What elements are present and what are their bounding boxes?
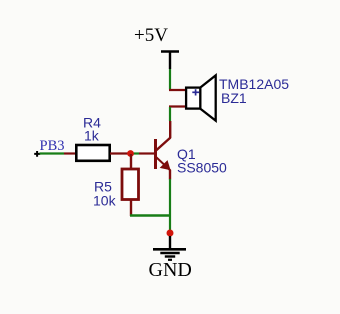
wire R5 bottom pin [130, 199, 132, 216]
wire R4 to node A [110, 152, 130, 154]
port label PB3 [40, 138, 65, 154]
resistor value 1k [84, 128, 100, 144]
resistor designator R5 [94, 179, 112, 195]
node A junction dot [127, 150, 134, 157]
wire PB3 to R4 [40, 152, 77, 154]
svg-text:BZ1: BZ1 [221, 90, 247, 106]
wire node A to R5 [130, 154, 132, 169]
wire R5 to emitter [130, 214, 170, 216]
svg-text:SS8050: SS8050 [177, 160, 227, 176]
resistor R4 body [76, 145, 109, 161]
wire buzzer to collector [169, 107, 171, 121]
ground label GND [149, 259, 192, 281]
wire emitter to ground [169, 179, 171, 231]
ground symbol [153, 249, 186, 259]
transistor value SS8050 [177, 160, 227, 176]
transistor designator Q1 [177, 146, 196, 162]
transistor Q1 emitter pin with arrow [156, 157, 171, 180]
resistor R5 body [122, 169, 139, 200]
ground junction dot [167, 230, 174, 237]
port PB3 marker [34, 151, 40, 157]
wire node A to base [131, 152, 155, 154]
buzzer BZ1 body [186, 75, 216, 120]
svg-text:10k: 10k [93, 193, 117, 209]
svg-text:1k: 1k [84, 128, 100, 144]
wire dot to ground symbol [169, 236, 171, 249]
resistor designator R4 [83, 115, 101, 131]
svg-text:GND: GND [149, 259, 192, 281]
transistor Q1 base bar [154, 139, 157, 169]
wire +5V to buzzer [169, 69, 171, 90]
svg-text:+5V: +5V [134, 25, 168, 46]
power bar symbol [161, 52, 179, 70]
svg-text:PB3: PB3 [40, 138, 65, 154]
wire buzzer pin 2 [169, 105, 187, 107]
transistor Q1 collector pin [156, 121, 171, 151]
buzzer designator BZ1 [221, 90, 247, 106]
buzzer value label TMB12A05 [219, 76, 289, 92]
wire buzzer pin 1 [169, 89, 187, 91]
resistor value 10k [93, 193, 117, 209]
power +5V label [134, 25, 168, 46]
